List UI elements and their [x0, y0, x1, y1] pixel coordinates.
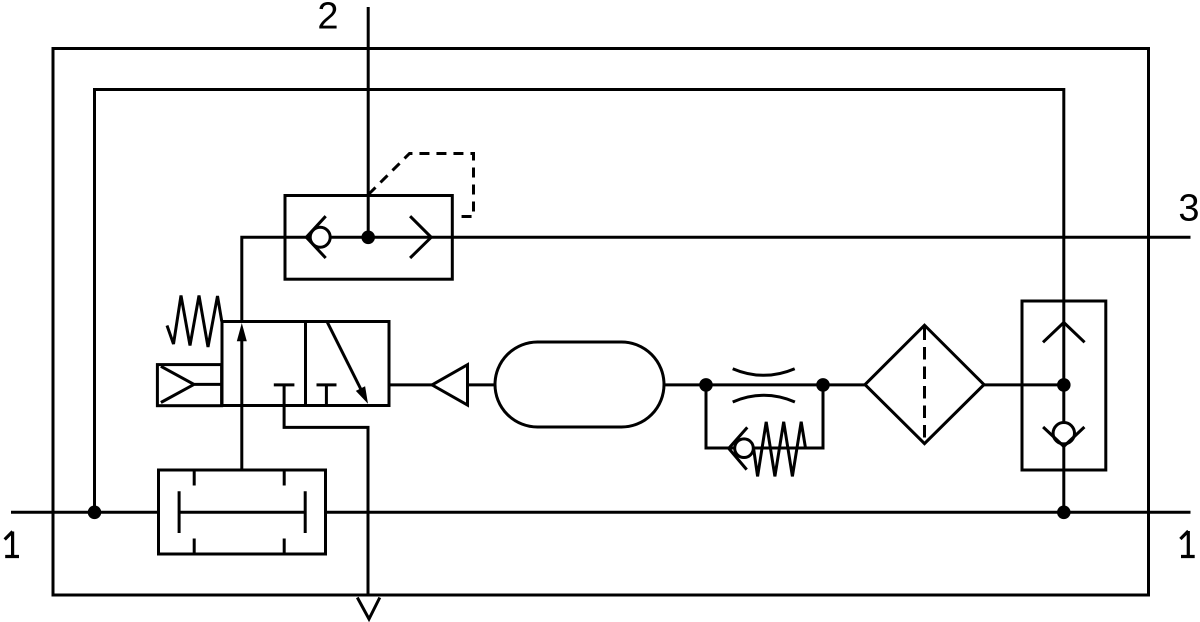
throttle upper arc	[733, 369, 795, 376]
filter body	[865, 325, 984, 443]
block check seat	[1043, 427, 1084, 446]
3/2 valve position divider	[304, 322, 307, 406]
pilot operated check valve box	[285, 196, 452, 280]
valve exhaust diagonal arrow head	[356, 386, 368, 404]
exhaust vent triangle	[357, 598, 380, 620]
pilot actuator triangle	[161, 366, 222, 402]
valve flow arrow head	[237, 323, 247, 341]
port 1 label left	[5, 532, 19, 557]
wire to reservoir capsule	[468, 383, 496, 386]
3/2 valve body	[222, 322, 389, 406]
flow direction triangle	[432, 365, 468, 405]
block check ball	[1053, 423, 1074, 444]
junction dot throttle left	[699, 378, 713, 392]
reservoir capsule	[495, 342, 664, 427]
exhaust wire	[284, 406, 368, 596]
valve blocked port T right	[317, 385, 337, 406]
non-return block center line	[1062, 301, 1065, 512]
check ball	[310, 227, 330, 247]
valve exhaust diagonal shaft	[327, 322, 361, 390]
volume reservoir body	[159, 470, 326, 554]
junction dot left port 1	[88, 506, 102, 520]
wire filter to non-return block	[984, 383, 1064, 386]
junction dot in block	[1057, 378, 1071, 392]
valve flow arrow up shaft	[240, 340, 243, 406]
filter element dashed	[923, 328, 926, 442]
pilot dashed line	[368, 154, 473, 217]
bypass check spring	[754, 422, 806, 477]
return spring	[167, 296, 222, 348]
valve blocked port T left	[274, 385, 295, 406]
wire valve to volume reservoir	[240, 406, 243, 471]
port 3 rail with drop to valve	[242, 237, 1191, 321]
bypass left leg	[706, 385, 823, 448]
flow chevron right	[410, 216, 431, 258]
reservoir piston	[179, 491, 305, 533]
junction dot port 2 / port 3	[361, 231, 375, 245]
non-return block body	[1022, 301, 1106, 470]
check seat	[306, 216, 325, 258]
port 1 rail right segment	[326, 511, 1191, 514]
junction dot right port 1	[1057, 506, 1071, 520]
throttle lower arc	[733, 395, 795, 402]
upward flow chevron	[1043, 323, 1085, 343]
port 1 label right	[1180, 531, 1194, 557]
port 2 line	[367, 7, 370, 237]
port 1 rail left segment	[11, 511, 159, 514]
reservoir top ticks	[194, 472, 284, 486]
bypass check ball	[735, 439, 754, 458]
internal supply loop wire	[95, 90, 1064, 513]
bypass check seat	[729, 427, 748, 469]
junction dot throttle right	[816, 378, 830, 392]
reservoir bottom ticks	[194, 539, 284, 553]
pneumatic pilot actuator box	[157, 365, 221, 406]
wire valve output	[389, 383, 432, 386]
wire capsule to filter	[664, 383, 866, 386]
svg-text:2: 2	[317, 0, 338, 38]
svg-text:3: 3	[1178, 188, 1199, 230]
